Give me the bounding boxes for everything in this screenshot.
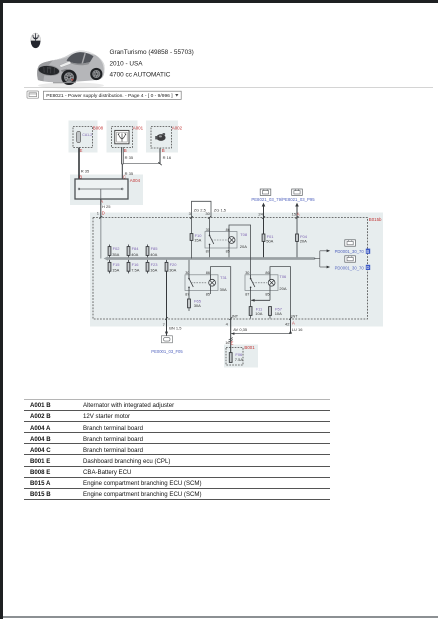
fuse F23 bbox=[146, 260, 158, 274]
relay T08 coil bbox=[228, 232, 235, 249]
pin E of B008 bbox=[80, 148, 83, 153]
wire label AV 0,35 bbox=[233, 327, 248, 332]
svg-text:R 35: R 35 bbox=[125, 171, 134, 176]
pin C of A004 bbox=[123, 174, 126, 179]
left window frame bbox=[0, 0, 3, 619]
wire T31.87 to fuse F65 bbox=[188, 291, 190, 300]
junction wire A002 to A001 net bbox=[122, 162, 162, 165]
wire T06.87 down bbox=[250, 291, 252, 301]
connector icon for net 70D bbox=[345, 256, 356, 262]
relay T06 box bbox=[245, 275, 278, 291]
busbar output branch to off-page arrows bbox=[314, 249, 330, 268]
car photo (stylised) bbox=[37, 51, 105, 89]
alternator A001 shaded area bbox=[107, 121, 138, 153]
wire T08.85 to busbar bbox=[228, 248, 230, 257]
svg-text:20A: 20A bbox=[300, 239, 307, 244]
relay T08 rating 20A bbox=[240, 244, 247, 249]
wire label BN 1,5 bbox=[169, 326, 182, 331]
wire busbar to T31.30 bbox=[188, 260, 190, 275]
svg-text:F84: F84 bbox=[132, 246, 140, 251]
svg-text:16A: 16A bbox=[150, 268, 157, 273]
fuse F57 bbox=[269, 306, 283, 318]
wire T31.86 loop to bottom pin 4 bbox=[211, 267, 231, 319]
fuse F02 bbox=[108, 245, 120, 258]
svg-text:30: 30 bbox=[245, 271, 249, 275]
pin 1 / D on B015 top edge bbox=[97, 211, 105, 216]
relay T31 pin 85 bbox=[206, 293, 210, 297]
wire arrowhead into connector C3 bbox=[165, 332, 168, 336]
relay T31 rating 30A bbox=[220, 287, 227, 292]
svg-text:R 16: R 16 bbox=[163, 155, 172, 160]
relay T31 switch bbox=[188, 275, 207, 291]
svg-text:40A: 40A bbox=[131, 252, 138, 257]
svg-text:PE0001_03_F05: PE0001_03_F05 bbox=[151, 349, 183, 354]
wire label R 35 (A001 lower) bbox=[125, 171, 134, 176]
svg-text:F23: F23 bbox=[151, 262, 159, 267]
pin B of A004 bbox=[79, 174, 82, 179]
starter motor symbol inside A002 bbox=[155, 133, 165, 141]
svg-text:40A: 40A bbox=[150, 252, 157, 257]
wire pin 42 down and left to node bbox=[231, 319, 292, 336]
fuse F85 bbox=[146, 245, 158, 258]
battery ECU B008 shaded area bbox=[69, 121, 98, 153]
separator line bbox=[24, 87, 433, 89]
wire A001.B down (double conductor) bbox=[121, 148, 123, 180]
svg-text:R 35: R 35 bbox=[81, 168, 90, 173]
svg-text:A002: A002 bbox=[172, 126, 183, 131]
relay T31 coil bbox=[209, 275, 216, 291]
svg-text:INT: INT bbox=[291, 315, 298, 319]
wire label LU 16 bbox=[292, 327, 303, 332]
svg-text:F85: F85 bbox=[151, 246, 159, 251]
svg-text:10A: 10A bbox=[275, 311, 282, 316]
battery symbol inside B008 bbox=[77, 131, 93, 142]
pin B of A002 bbox=[162, 148, 165, 153]
relay T06 rating 20A bbox=[279, 286, 286, 291]
engine compartment ECU B015 shaded area bbox=[90, 213, 383, 327]
wire feed to pin 24 with up arrow bbox=[262, 203, 266, 218]
svg-text:E: E bbox=[231, 341, 234, 346]
svg-text:CA1-2: CA1-2 bbox=[82, 133, 92, 137]
bottom edge line bbox=[3, 616, 438, 618]
dashboard ecu B001 shaded area bbox=[224, 345, 258, 368]
wire label ZG 1,5 bbox=[214, 207, 227, 212]
svg-text:D: D bbox=[366, 265, 369, 270]
svg-text:F16: F16 bbox=[132, 262, 140, 267]
svg-text:B015b: B015b bbox=[369, 217, 382, 222]
net label PE0001_03_F05 bbox=[151, 349, 183, 354]
svg-text:R 35: R 35 bbox=[125, 155, 134, 160]
pin 7 on B015 bottom edge bbox=[163, 322, 166, 327]
dashboard ecu B001 dashed border bbox=[226, 345, 255, 365]
starter motor A002 shaded area bbox=[146, 121, 178, 153]
toolbar button bbox=[27, 91, 39, 98]
header: maserati logo bbox=[0, 0, 438, 110]
relay T08 pin 30 bbox=[206, 228, 210, 232]
svg-text:30A: 30A bbox=[220, 287, 227, 292]
wire label R 35 (A001 upper) bbox=[125, 155, 134, 160]
pin 30 on B015 top edge bbox=[205, 211, 210, 216]
relay T08 label bbox=[240, 232, 248, 237]
svg-text:A004: A004 bbox=[130, 178, 141, 183]
wire A002.B down bbox=[159, 148, 161, 164]
relay T06 pin 87 bbox=[245, 293, 249, 297]
svg-text:50A: 50A bbox=[266, 239, 273, 244]
legend table bbox=[24, 399, 330, 500]
fuse F01 bbox=[262, 218, 274, 258]
pin 15 / A on B015 top edge bbox=[292, 211, 300, 216]
pin A of A004 bbox=[100, 199, 103, 204]
svg-text:AV 0,35: AV 0,35 bbox=[233, 327, 248, 332]
internal feed wire from pin 1 down to busbar bbox=[100, 218, 102, 259]
connector icon above F01 feed bbox=[260, 189, 271, 195]
relay T06 pin 85 bbox=[265, 293, 269, 297]
net label PD0001_30_70D bbox=[335, 265, 371, 271]
relay T06 coil bbox=[268, 275, 275, 291]
alternator A001 bbox=[112, 126, 144, 148]
pin 4 on B015 bottom edge bbox=[226, 321, 229, 326]
pin ticks where wires cross B015 border bbox=[99, 216, 298, 320]
connector icon above F04 feed bbox=[292, 189, 303, 195]
starter motor A002 bbox=[151, 126, 183, 148]
svg-text:35A: 35A bbox=[112, 252, 119, 257]
svg-text:E: E bbox=[80, 148, 83, 153]
INT label right bbox=[291, 315, 298, 319]
pin B of A001 bbox=[124, 148, 127, 153]
pin 24 on B015 top edge bbox=[258, 211, 263, 216]
wire pin 4 down to B001 bbox=[230, 319, 232, 353]
branch terminal board A004 shaded area bbox=[70, 175, 143, 206]
svg-text:INT: INT bbox=[232, 315, 239, 319]
svg-text:86: 86 bbox=[206, 271, 210, 275]
svg-text:A001: A001 bbox=[133, 126, 144, 131]
svg-text:42: 42 bbox=[285, 321, 290, 326]
main busbar with left arrowhead bbox=[104, 256, 314, 260]
relay T31 pin 87 bbox=[185, 293, 189, 297]
svg-text:LU 16: LU 16 bbox=[292, 327, 303, 332]
fuse F20 bbox=[165, 260, 177, 273]
trident logo oval bbox=[31, 33, 41, 48]
toolbar dropdown bbox=[43, 91, 181, 99]
fuse F06 inside B001 bbox=[229, 352, 243, 362]
svg-text:A: A bbox=[292, 321, 295, 326]
svg-text:B: B bbox=[162, 148, 165, 153]
svg-text:24: 24 bbox=[258, 211, 263, 216]
svg-text:30A: 30A bbox=[169, 268, 176, 273]
svg-text:85: 85 bbox=[206, 293, 210, 297]
svg-text:D: D bbox=[102, 211, 105, 216]
relay T08 switch bbox=[209, 232, 228, 249]
svg-text:B001: B001 bbox=[244, 345, 255, 350]
fuse F10 bbox=[190, 218, 202, 259]
branch terminal board A004 bbox=[75, 178, 141, 199]
svg-text:F15: F15 bbox=[113, 262, 121, 267]
relay T31 label bbox=[220, 275, 228, 280]
wire B008.E to A004.B bbox=[78, 148, 80, 180]
wire T06.85 down bbox=[269, 291, 271, 301]
top window frame bbox=[0, 0, 438, 3]
wire T08.87 to busbar bbox=[209, 248, 211, 257]
wire F20 down through box to connector C3 bbox=[166, 271, 168, 335]
svg-text:B008: B008 bbox=[93, 126, 104, 131]
wire T08.86 loop to T06.30 bbox=[229, 225, 251, 275]
alternator symbol inside A001 bbox=[115, 130, 129, 143]
svg-text:A: A bbox=[297, 211, 300, 216]
relay T31 pin 86 bbox=[206, 271, 210, 275]
svg-text:20A: 20A bbox=[240, 244, 247, 249]
fuse F15 bbox=[108, 260, 120, 274]
svg-text:15A: 15A bbox=[194, 238, 201, 243]
svg-text:BN 1,5: BN 1,5 bbox=[169, 326, 182, 331]
svg-text:PD0001_30_70: PD0001_30_70 bbox=[335, 265, 365, 270]
splice node 16 / E bbox=[225, 338, 233, 346]
pin 42 / A on B015 bottom edge bbox=[285, 321, 295, 327]
svg-text:87: 87 bbox=[245, 293, 249, 297]
relay T08 pin 86 bbox=[226, 228, 230, 232]
svg-text:10A: 10A bbox=[255, 311, 262, 316]
wire feed to pin 15 with up arrow bbox=[295, 203, 299, 218]
relay T06 switch bbox=[250, 275, 267, 291]
svg-text:H 25: H 25 bbox=[102, 204, 111, 209]
svg-text:86: 86 bbox=[265, 271, 269, 275]
wire label R 35 (left) bbox=[81, 168, 90, 173]
relay T08 box bbox=[205, 232, 237, 249]
engine compartment branching ECU B015 dashed border bbox=[93, 217, 382, 319]
wire T31.85 stub bbox=[210, 291, 212, 295]
battery ECU B008 bbox=[73, 126, 104, 148]
net label PD0001_30_70B bbox=[335, 249, 371, 255]
wire T08.30 to pin 30 bbox=[209, 218, 211, 232]
svg-text:20A: 20A bbox=[279, 286, 286, 291]
fuse F16 bbox=[127, 260, 140, 274]
relay T06 pin 30 bbox=[245, 271, 249, 275]
svg-text:B: B bbox=[366, 249, 369, 254]
fuse F84 bbox=[127, 245, 139, 258]
wire label ZG 2,5 bbox=[194, 207, 207, 212]
svg-text:F02: F02 bbox=[113, 246, 121, 251]
svg-text:T08: T08 bbox=[240, 232, 248, 237]
fuse F65 bbox=[188, 299, 202, 311]
svg-text:F20: F20 bbox=[170, 262, 178, 267]
wire tie 87-85 with left arrow bbox=[251, 299, 270, 302]
svg-text:ZG 1,5: ZG 1,5 bbox=[214, 207, 227, 212]
relay T31 pin 30 bbox=[185, 271, 189, 275]
svg-text:PE8021_03_79/PE8021_03_P95: PE8021_03_79/PE8021_03_P95 bbox=[251, 197, 315, 202]
svg-text:15A: 15A bbox=[112, 268, 119, 273]
wire label H 25 bbox=[102, 204, 111, 209]
fuse F11 bbox=[249, 300, 263, 318]
connector icon for net 70B bbox=[345, 240, 356, 246]
svg-text:30A: 30A bbox=[194, 303, 201, 308]
svg-text:PD0001_30_70: PD0001_30_70 bbox=[335, 249, 365, 254]
fuse F04 bbox=[296, 218, 308, 258]
relay T06 label bbox=[279, 274, 287, 279]
svg-text:85: 85 bbox=[265, 293, 269, 297]
relay T08 pin 85 bbox=[226, 250, 230, 254]
pin 3 on B015 top edge bbox=[189, 211, 192, 216]
relay T08 pin 87 bbox=[206, 250, 210, 254]
connector C3 icon bbox=[161, 336, 172, 343]
svg-text:T06: T06 bbox=[279, 274, 287, 279]
wire label R 16 bbox=[163, 155, 172, 160]
jumper wire pin 3 to pin 30 above B015 bbox=[192, 201, 212, 217]
svg-text:30: 30 bbox=[205, 211, 210, 216]
relay T31 box bbox=[185, 275, 218, 291]
relay T06 pin 86 bbox=[265, 271, 269, 275]
A004 internal busbar bbox=[78, 188, 123, 199]
svg-text:7.5A: 7.5A bbox=[235, 357, 244, 362]
svg-text:7.5A: 7.5A bbox=[131, 268, 140, 273]
INT label left bbox=[232, 315, 239, 319]
wire A004.A to B015 pin 1 bbox=[100, 199, 102, 218]
svg-text:B: B bbox=[124, 148, 127, 153]
svg-text:T31: T31 bbox=[220, 275, 228, 280]
net label PE8021_03_79/PE8021_03_P95 bbox=[251, 197, 315, 202]
wire T06.86 loop to bottom pin 42 bbox=[270, 267, 291, 319]
